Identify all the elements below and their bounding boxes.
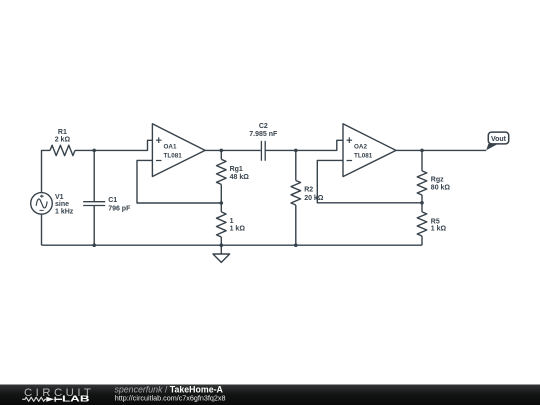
wire bottom rail — [42, 244, 423, 246]
svg-text:TL081: TL081 — [354, 153, 373, 160]
footer bar — [0, 385, 540, 405]
capacitor C1 — [83, 202, 105, 206]
ground — [220, 245, 222, 254]
wire OA1 output — [205, 149, 261, 151]
op-amp OA1 — [152, 124, 205, 177]
Vout flag — [488, 132, 508, 144]
resistor R5 — [421, 203, 423, 212]
node R1/C1 junction — [92, 149, 96, 153]
svg-text:1 kΩ: 1 kΩ — [431, 226, 447, 233]
wire OA2 minus feedback — [317, 160, 422, 202]
svg-text:Rg1: Rg1 — [230, 166, 243, 173]
svg-text:R5: R5 — [431, 218, 440, 225]
svg-text:1: 1 — [230, 218, 234, 225]
resistor Rg1 — [220, 150, 222, 159]
wire OA1 minus feedback — [137, 160, 221, 203]
node OA1 out / Rg1 — [220, 149, 224, 153]
resistor 1 (1 kOhm) — [220, 203, 222, 212]
svg-text:20 kΩ: 20 kΩ — [304, 195, 324, 202]
node Rg1/1k/feedback — [220, 201, 224, 205]
wire OA2 output to Vout — [396, 149, 486, 151]
svg-text:1 kHz: 1 kHz — [55, 209, 74, 216]
node R2 bottom rail — [294, 243, 298, 247]
svg-text:sine: sine — [55, 201, 69, 208]
node Rgz/R5/feedback — [420, 201, 424, 205]
node C1 bottom rail — [92, 243, 96, 247]
resistor Rgz — [421, 150, 423, 171]
svg-text:796 pF: 796 pF — [108, 205, 131, 212]
svg-text:C2: C2 — [259, 123, 268, 130]
wire C1 top lead — [93, 150, 95, 201]
svg-text:OA1: OA1 — [164, 144, 177, 151]
node 1k/ground junction on rail — [220, 243, 224, 247]
svg-text:http://circuitlab.com/c7x6gfn3: http://circuitlab.com/c7x6gfn3fq2x8 — [115, 393, 226, 402]
svg-text:7.985 nF: 7.985 nF — [249, 131, 278, 138]
svg-text:1 kΩ: 1 kΩ — [230, 226, 246, 233]
node C2/R2 junction — [294, 149, 298, 153]
svg-text:TL081: TL081 — [164, 153, 183, 160]
capacitor C2 — [261, 141, 265, 161]
logo diode — [46, 397, 54, 402]
wire C1 bottom lead — [93, 206, 95, 246]
wire C2 to OA2 plus input with jog — [265, 140, 343, 150]
svg-text:48 kΩ: 48 kΩ — [230, 174, 250, 181]
svg-text:Vout: Vout — [491, 136, 507, 143]
node OA2 out / Rgz — [420, 149, 424, 153]
resistor R1 — [50, 145, 75, 155]
svg-text:C1: C1 — [108, 197, 117, 204]
voltage source V1 — [31, 193, 53, 215]
wire top rail from V1 to R1 — [42, 150, 51, 192]
svg-text:R2: R2 — [304, 187, 313, 194]
op-amp OA2 — [343, 124, 396, 177]
svg-text:LAB: LAB — [62, 393, 90, 403]
svg-text:Rgz: Rgz — [431, 176, 444, 183]
svg-text:2 kΩ: 2 kΩ — [55, 136, 71, 143]
resistor R2 — [295, 150, 297, 180]
svg-text:V1: V1 — [55, 194, 64, 201]
svg-text:80 kΩ: 80 kΩ — [431, 184, 451, 191]
svg-text:OA2: OA2 — [354, 144, 367, 151]
wire R1 to OA1 plus input with jog — [75, 140, 152, 150]
node Vout flag pointer — [486, 144, 498, 151]
wire V1 bottom lead — [41, 214, 43, 245]
svg-text:R1: R1 — [58, 129, 67, 136]
logo resistor zigzag — [22, 397, 46, 401]
